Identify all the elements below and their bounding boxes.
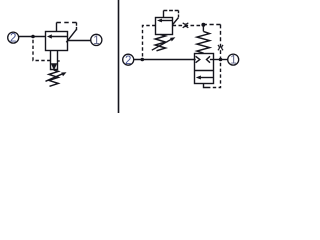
main spring (right diagram)	[197, 31, 210, 53]
adjust diagonal link	[66, 29, 76, 42]
wire main valve to port 1	[214, 59, 229, 61]
adjust dashed box top	[57, 22, 77, 24]
pilot adjustment arrow	[152, 39, 172, 50]
pilot valve body V2	[156, 18, 173, 35]
pilot adjust diagonal link	[173, 18, 179, 25]
seat box below V1	[51, 51, 58, 70]
svg-text:2: 2	[125, 55, 131, 67]
main spring stub	[202, 25, 204, 32]
svg-text:1: 1	[93, 35, 99, 47]
junction node on port 2 wire	[31, 35, 35, 39]
valve body V1 (left diagram)	[46, 32, 68, 51]
orifice on vertical	[218, 45, 220, 50]
junction node pilot takeoff	[141, 58, 145, 62]
orifice on pilot line	[183, 23, 189, 24]
stub from V2 to pilot adjust box	[163, 11, 165, 18]
pilot wire dashed (junction to seat)	[33, 37, 51, 61]
flow arrow in bottom cell	[201, 77, 214, 79]
svg-text:2: 2	[10, 33, 16, 45]
wire port 2 to valve	[19, 36, 46, 38]
port circle 1 (left diagram)	[91, 34, 102, 45]
pilot output dashed line left part	[173, 25, 204, 27]
junction node on port 1 wire	[219, 58, 223, 62]
drain stub below V3	[204, 84, 208, 88]
wire valve to port 1	[68, 40, 92, 42]
divider line	[118, 0, 120, 113]
adjust dashed box right	[76, 23, 78, 31]
port circle 1 (right diagram)	[228, 54, 239, 65]
port circle 2 (left diagram)	[8, 32, 19, 43]
poppet triangle	[51, 63, 58, 70]
pilot riser dashed (valve to junction)	[143, 26, 156, 60]
wire port 2 to main valve	[134, 59, 195, 61]
relief flow arrow inside V1	[51, 36, 68, 38]
adjustment arrow through spring	[46, 74, 63, 82]
drain dashed loop	[207, 62, 221, 88]
junction node spring top	[201, 23, 205, 27]
V3 cell divider	[195, 70, 214, 72]
main valve body V3	[195, 54, 214, 84]
pilot adjust dashed box top	[164, 10, 179, 12]
pilot adjust dashed box right	[178, 11, 180, 18]
svg-text:1: 1	[230, 55, 236, 67]
dashed pilot vertical to port 1	[220, 25, 222, 59]
pilot relief arrow inside V2	[159, 20, 173, 22]
pilot spring	[155, 35, 165, 51]
port circle 2 (right diagram)	[123, 54, 134, 65]
stub from V1 to adjust box	[56, 23, 58, 32]
pilot output dashed line right part	[203, 24, 220, 26]
spring (left diagram)	[49, 70, 58, 86]
blocked seat arrows in top cell	[195, 59, 196, 61]
dash tick right of seat box	[58, 60, 60, 62]
